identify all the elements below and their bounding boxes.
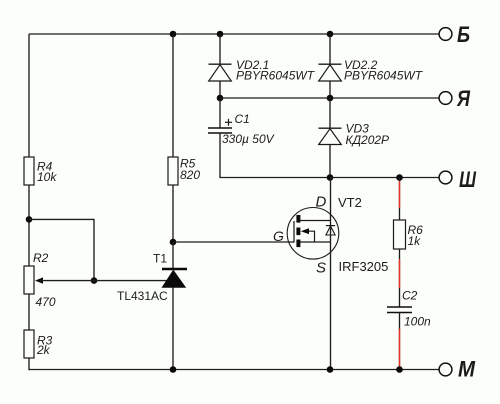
wire top rail to Б — [29, 33, 439, 35]
resistor R5 — [168, 157, 200, 186]
wire junction to R2 wiper — [29, 219, 94, 280]
svg-text:IRF3205: IRF3205 — [339, 259, 389, 274]
diode VD2.1 — [209, 58, 316, 83]
wire R5 branch from top rail — [172, 34, 174, 157]
wire R6 to C2 red highlight — [399, 259, 401, 288]
svg-text:Б: Б — [457, 22, 470, 47]
diode VD2.2 — [319, 58, 424, 83]
svg-text:PBYR6045WT: PBYR6045WT — [236, 69, 316, 83]
svg-text:100n: 100n — [404, 315, 431, 329]
wire Ш rail — [330, 177, 439, 179]
wire R6 top lead red highlight — [399, 181, 401, 208]
svg-text:PBYR6045WT: PBYR6045WT — [344, 69, 424, 83]
svg-text:820: 820 — [180, 168, 200, 182]
wire Я rail — [220, 97, 439, 99]
wire left rail bottom segment — [28, 358, 30, 370]
wire bottom rail to М — [29, 369, 439, 371]
wire VD2.1 anode to Я rail — [219, 81, 221, 98]
svg-text:T1: T1 — [153, 252, 167, 266]
wire left rail R4 to R2 — [28, 185, 30, 266]
svg-text:Я: Я — [456, 86, 471, 111]
node top rail VD2.1 branch — [217, 31, 224, 38]
capacitor C2 — [387, 289, 431, 329]
svg-text:КД202Р: КД202Р — [346, 133, 390, 147]
node Я rail VD3 branch — [327, 95, 334, 102]
wire gate lead — [173, 241, 294, 243]
node Я rail C1 branch — [217, 95, 224, 102]
wire C1 bottom to Ш rail — [220, 133, 330, 178]
svg-text:10k: 10k — [37, 170, 57, 184]
wire VD2.2 branch from top rail — [329, 34, 331, 64]
svg-text:S: S — [316, 259, 326, 276]
wire VD2.1 branch from top rail — [219, 34, 221, 64]
node junction R4-R2 — [26, 216, 33, 223]
svg-text:М: М — [458, 357, 476, 382]
diode VD3 — [319, 122, 390, 148]
node wiper junction — [91, 277, 98, 284]
svg-text:330µ 50V: 330µ 50V — [222, 132, 275, 146]
svg-text:1k: 1k — [408, 234, 422, 248]
svg-text:2k: 2k — [36, 343, 51, 357]
node Ш rail VT2 drain — [327, 174, 334, 181]
wire R5 to gate junction — [172, 185, 174, 242]
wire left rail top segment — [28, 34, 30, 157]
svg-text:D: D — [316, 193, 327, 210]
transistor VT2 IRF3205 — [273, 193, 388, 276]
wire T1 anode to bottom rail — [172, 287, 174, 370]
node top rail R5 branch — [170, 31, 177, 38]
node bottom rail VT2 source — [327, 366, 334, 373]
capacitor C1 — [208, 112, 275, 146]
svg-text:VT2: VT2 — [338, 195, 362, 210]
wire C2 bottom black — [399, 313, 401, 370]
wire VT2 drain-source vertical — [330, 178, 332, 370]
wire VD2.2 anode to Я rail — [329, 81, 331, 98]
svg-text:R2: R2 — [33, 251, 49, 265]
node bottom rail T1 — [170, 366, 177, 373]
wire R6 to C2 black — [399, 249, 401, 307]
wire R6 top lead black — [399, 178, 401, 221]
svg-text:C2: C2 — [402, 289, 418, 303]
terminal Я — [439, 86, 471, 111]
node gate junction — [170, 239, 177, 246]
wire left rail R2 to R3 — [28, 294, 30, 330]
node top rail VD2.2 branch — [327, 31, 334, 38]
terminal Ш — [439, 167, 476, 192]
shunt regulator T1 TL431AC — [117, 252, 187, 304]
potentiometer R2 — [24, 251, 168, 309]
node Ш rail R6 branch — [396, 174, 403, 181]
wire T1 cathode — [172, 242, 174, 269]
resistor R6 — [394, 220, 424, 249]
svg-text:C1: C1 — [235, 112, 250, 126]
node bottom rail C2 — [396, 366, 403, 373]
terminal М — [439, 357, 476, 382]
wire C2 bottom red highlight — [399, 329, 401, 369]
wire C1 top lead — [219, 98, 221, 128]
svg-text:Ш: Ш — [459, 167, 476, 192]
svg-text:470: 470 — [36, 295, 56, 309]
resistor R3 — [24, 330, 53, 358]
resistor R4 — [24, 157, 57, 185]
wire VD3 anode to Ш rail — [329, 145, 331, 178]
wire VD3 cathode lead — [329, 98, 331, 128]
terminal Б — [439, 22, 470, 47]
svg-text:G: G — [273, 228, 284, 244]
svg-text:TL431AC: TL431AC — [117, 289, 168, 303]
